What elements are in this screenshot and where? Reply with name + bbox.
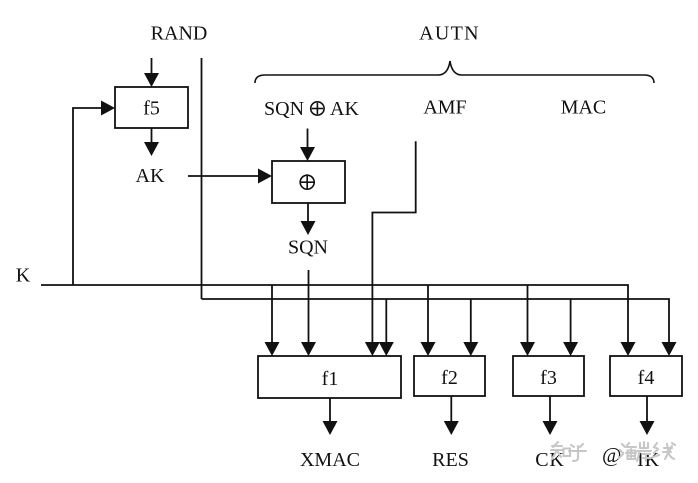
- block f3: [513, 356, 584, 396]
- svg-text:f2: f2: [441, 367, 458, 389]
- svg-text:AK: AK: [330, 98, 359, 120]
- svg-text:K: K: [16, 265, 31, 287]
- watermark zhihu @haianxian (gray hand-drawn strokes): [551, 442, 675, 467]
- svg-text:MAC: MAC: [561, 97, 607, 119]
- wire f5 output down to AK label: [144, 128, 159, 156]
- brace under AUTN: [255, 61, 654, 83]
- block XOR: [272, 161, 345, 203]
- svg-text:@: @: [602, 443, 621, 467]
- char hai: [619, 443, 636, 459]
- svg-text:AUTN: AUTN: [419, 23, 480, 45]
- block f2: [414, 356, 485, 396]
- wire RAND bus drop to f2: [463, 299, 478, 356]
- wire f4 output to IK: [640, 396, 655, 435]
- wire AK to XOR box with arrow: [188, 169, 272, 184]
- char an: [637, 442, 651, 461]
- wire SQN down to f1 with arrow: [301, 270, 316, 356]
- wire f2 output to RES: [444, 396, 459, 435]
- svg-text:SQN: SQN: [288, 237, 328, 259]
- char zhi: [551, 442, 570, 459]
- svg-text:f4: f4: [638, 367, 655, 389]
- wire K bus drop to f3: [520, 285, 535, 356]
- svg-text:f1: f1: [322, 368, 339, 390]
- svg-text:RES: RES: [432, 449, 469, 471]
- char hu: [569, 444, 586, 461]
- svg-text:CK: CK: [535, 449, 564, 471]
- wire f1 output to XMAC: [323, 398, 338, 435]
- svg-text:RAND: RAND: [151, 23, 208, 45]
- wire K bus drop to f1: [265, 285, 280, 356]
- wire K bus horizontal, ends down into f4 left arrow: [41, 285, 636, 356]
- wire RAND branch vertical down to RAND bus: [201, 58, 203, 299]
- wire RAND down to f5 with arrow: [144, 58, 159, 87]
- char xian: [653, 443, 675, 459]
- wire RAND bus drop to f1: [379, 299, 394, 356]
- svg-text:XMAC: XMAC: [300, 449, 360, 471]
- wire SQN-AK down into XOR box: [300, 129, 315, 162]
- block f5: [115, 87, 188, 128]
- svg-text:AMF: AMF: [423, 97, 466, 119]
- wire K bus drop to f2: [421, 285, 436, 356]
- svg-text:AK: AK: [136, 165, 165, 187]
- wire AMF elbow down to f1 with arrow: [365, 141, 416, 356]
- svg-text:SQN: SQN: [264, 98, 304, 120]
- label SQN XOR AK: [264, 98, 359, 120]
- block f4: [610, 356, 682, 396]
- wire K loop into f5 (left elbow with arrow): [73, 101, 115, 286]
- svg-text:f3: f3: [540, 367, 557, 389]
- wire RAND bus horizontal, ends down into f4 right arrow: [202, 299, 677, 356]
- wire XOR output down to SQN label: [301, 203, 316, 235]
- wire f3 output to CK: [543, 396, 558, 435]
- wire RAND bus drop to f3: [563, 299, 578, 356]
- svg-text:f5: f5: [143, 98, 160, 120]
- block f1: [258, 356, 401, 398]
